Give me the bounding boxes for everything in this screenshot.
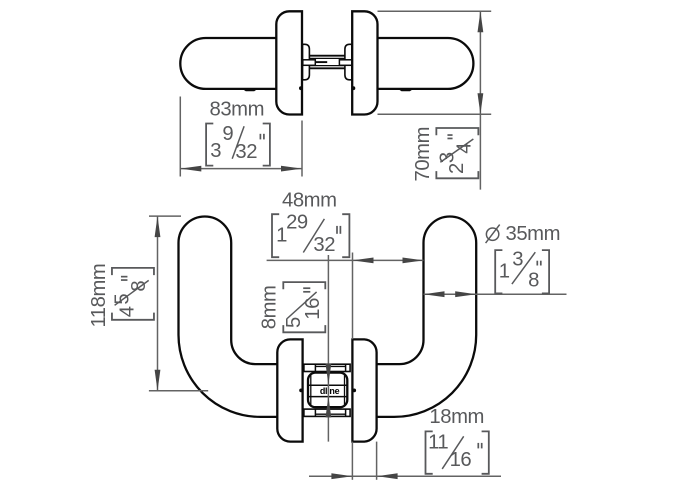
83mm extension line right xyxy=(301,121,303,177)
48mm arrow left xyxy=(353,258,374,264)
left screw dot, front view xyxy=(299,389,303,393)
18mm extension line left xyxy=(351,442,353,480)
83mm dimension line xyxy=(180,168,302,170)
83mm extension line left xyxy=(179,97,181,177)
spindle bottom clip bar xyxy=(304,409,350,416)
left spindle boss, top view xyxy=(303,60,316,66)
48mm arrow right xyxy=(403,258,424,264)
left rosette, front view xyxy=(277,339,302,441)
18mm arrow left xyxy=(331,473,352,479)
svg-text:1: 1 xyxy=(499,261,510,283)
right spindle neck, top view xyxy=(345,44,352,80)
left rosette, top view xyxy=(276,11,302,114)
svg-text:9: 9 xyxy=(222,123,233,145)
8mm arrow upper xyxy=(326,364,332,385)
left spindle neck, top view xyxy=(303,44,310,80)
svg-text:35mm: 35mm xyxy=(506,223,561,245)
svg-text:32: 32 xyxy=(235,141,257,163)
118mm dimension line xyxy=(157,216,159,391)
spindle square lines, front view xyxy=(308,385,347,396)
svg-text:11: 11 xyxy=(428,431,448,453)
83mm label xyxy=(210,99,265,121)
svg-text:2: 2 xyxy=(446,163,468,174)
svg-text:4: 4 xyxy=(116,306,138,317)
svg-text:32: 32 xyxy=(313,234,335,256)
Ø35mm diameter symbol xyxy=(486,225,500,244)
left lever, front view xyxy=(179,217,278,417)
svg-text:118mm: 118mm xyxy=(88,264,110,328)
70mm arrow top xyxy=(478,11,484,32)
83mm arrow right xyxy=(281,166,302,172)
18mm inch fraction [11/16"] xyxy=(426,431,489,473)
dline logo xyxy=(320,386,340,396)
parting notch left lever xyxy=(244,89,257,91)
118mm inch fraction [4 5/8"] xyxy=(111,268,154,320)
8mm arrow lower xyxy=(326,396,332,417)
latch mechanism body xyxy=(308,373,347,408)
18mm label xyxy=(429,406,484,428)
right lever, front view xyxy=(377,216,476,416)
8mm label xyxy=(259,286,281,330)
left rosette screw dot xyxy=(299,86,303,90)
spindle bar, top view xyxy=(309,56,345,69)
70mm label xyxy=(412,127,434,182)
left lever grip, top view xyxy=(180,38,276,89)
right screw dot, front view xyxy=(352,389,356,393)
svg-text:18mm: 18mm xyxy=(429,406,484,428)
svg-text:83mm: 83mm xyxy=(210,99,265,121)
Ø35mm inch fraction [1 3/8"] xyxy=(495,249,549,294)
svg-text:dline: dline xyxy=(320,386,340,396)
118mm extension line top xyxy=(149,215,181,217)
right spindle boss, top view xyxy=(339,60,352,66)
18mm dimension line xyxy=(309,475,501,477)
48mm inch fraction [1 29/32"] xyxy=(272,211,349,257)
Ø35mm label xyxy=(506,223,561,245)
48mm dimension line xyxy=(267,259,424,261)
parting notch right lever xyxy=(399,89,412,91)
spindle top clip bar xyxy=(304,364,350,371)
118mm arrow top xyxy=(155,216,161,237)
118mm arrow bottom xyxy=(155,370,161,391)
70mm inch fraction [2 3/4"] xyxy=(436,128,478,178)
8mm inch fraction [5/16"] xyxy=(283,282,326,332)
70mm extension line bottom xyxy=(378,113,492,115)
18mm extension line right xyxy=(376,442,378,480)
70mm extension line top xyxy=(378,10,492,12)
svg-text:70mm: 70mm xyxy=(412,127,434,182)
svg-text:3: 3 xyxy=(512,249,523,271)
svg-text:8: 8 xyxy=(528,270,539,292)
right lever grip, top view xyxy=(378,38,474,89)
Ø35mm arrow right xyxy=(455,291,476,297)
Ø35mm arrow left xyxy=(424,291,445,297)
18mm arrow right xyxy=(377,473,398,479)
8mm dimension line xyxy=(327,255,329,442)
48mm extension line xyxy=(352,253,354,340)
48mm label xyxy=(282,190,337,212)
83mm arrow left xyxy=(180,166,201,172)
svg-text:3: 3 xyxy=(210,140,221,162)
118mm extension line bottom xyxy=(149,390,208,392)
right rosette screw dot xyxy=(352,86,356,90)
Ø35mm dimension line xyxy=(424,293,567,295)
svg-text:48mm: 48mm xyxy=(282,190,337,212)
svg-text:8mm: 8mm xyxy=(259,286,281,330)
right rosette, top view xyxy=(352,11,377,114)
svg-text:29: 29 xyxy=(286,211,308,233)
70mm dimension line xyxy=(479,11,481,189)
70mm arrow bottom xyxy=(478,93,484,114)
right rosette, front view xyxy=(352,339,376,441)
83mm inch fraction [3 9/32"] xyxy=(206,123,270,166)
spindle key slot line xyxy=(316,61,327,63)
118mm label xyxy=(88,264,110,328)
